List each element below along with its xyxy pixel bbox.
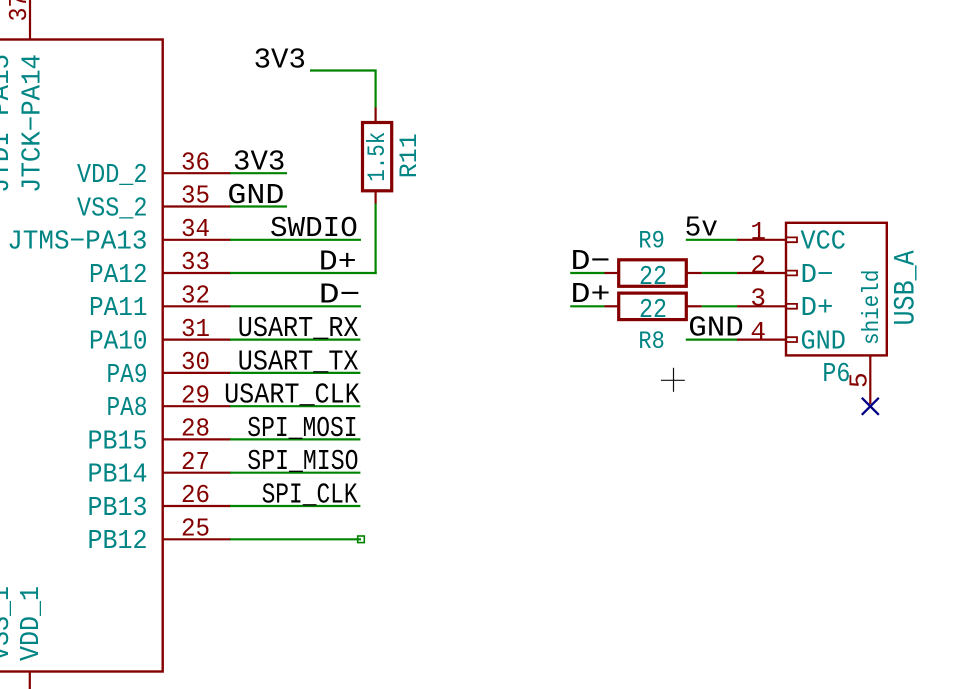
- svg-text:R8: R8: [638, 327, 664, 356]
- bottom pin of IC: [29, 672, 31, 689]
- svg-text:PB14: PB14: [88, 461, 148, 491]
- pin 37 (top edge): [4, 0, 34, 40]
- USB pin 5 shield: [845, 270, 885, 404]
- wire D- to R9: [570, 272, 604, 274]
- svg-text:26: 26: [181, 480, 210, 510]
- svg-text:PA11: PA11: [89, 294, 148, 324]
- no-connect X on pin 5: [862, 398, 879, 415]
- USB pin 4 GND: [737, 317, 846, 357]
- wire D+ to R8: [570, 305, 604, 307]
- svg-text:27: 27: [181, 447, 210, 477]
- svg-text:USART_TX: USART_TX: [238, 345, 359, 378]
- svg-text:D−: D−: [319, 279, 361, 312]
- svg-text:2: 2: [750, 250, 766, 280]
- svg-text:37: 37: [4, 0, 34, 22]
- wire net D− pin32: [230, 305, 361, 307]
- svg-text:SPI_CLK: SPI_CLK: [262, 478, 358, 511]
- svg-text:31: 31: [181, 314, 210, 344]
- wire net D+ pin33: [230, 272, 377, 274]
- resistor R8: [605, 293, 702, 326]
- resistor R9: [605, 260, 702, 293]
- pin 25 PB12: [88, 514, 232, 558]
- pin 27 PB14: [88, 447, 232, 491]
- svg-text:3V3: 3V3: [233, 146, 285, 179]
- svg-text:VSS_2: VSS_2: [77, 194, 148, 224]
- wire 3V3 to R11: [310, 71, 376, 108]
- wire net 3V3 pin36: [230, 172, 287, 174]
- svg-text:JTMS−PA13: JTMS−PA13: [7, 228, 147, 258]
- svg-text:28: 28: [181, 414, 210, 444]
- unconnected wire-end square pin25: [358, 536, 365, 543]
- svg-text:1.5k: 1.5k: [363, 132, 392, 182]
- wire R11 to D+ row: [375, 204, 377, 275]
- svg-text:R11: R11: [395, 133, 424, 178]
- svg-text:36: 36: [181, 147, 210, 177]
- cursor crosshair: [661, 368, 685, 392]
- svg-text:D−: D−: [801, 261, 834, 291]
- pin 30 PA9: [107, 347, 232, 391]
- svg-text:USART_CLK: USART_CLK: [224, 379, 360, 412]
- svg-text:SPI_MOSI: SPI_MOSI: [247, 412, 357, 445]
- wire net USART_RX pin31: [230, 339, 360, 341]
- svg-text:P6: P6: [822, 360, 850, 390]
- wire net GND pin35: [230, 205, 287, 207]
- pin 33 PA12: [89, 247, 231, 291]
- svg-text:VCC: VCC: [801, 228, 846, 258]
- svg-text:PB12: PB12: [88, 527, 148, 557]
- svg-text:PB13: PB13: [88, 494, 148, 524]
- svg-text:R9: R9: [638, 227, 664, 256]
- svg-text:34: 34: [181, 214, 210, 244]
- svg-text:PA12: PA12: [89, 261, 148, 291]
- svg-text:PB15: PB15: [88, 427, 148, 457]
- svg-text:USB_A: USB_A: [890, 250, 924, 325]
- pin 36 VDD_2: [77, 147, 231, 191]
- wire R9 to USB pin2: [702, 272, 737, 274]
- svg-text:D+: D+: [319, 245, 357, 278]
- svg-text:33: 33: [181, 247, 210, 277]
- svg-text:35: 35: [181, 181, 210, 211]
- svg-text:JTDI−PA15: JTDI−PA15: [0, 54, 17, 193]
- svg-text:4: 4: [750, 317, 766, 347]
- svg-text:D+: D+: [801, 294, 834, 324]
- svg-text:22: 22: [639, 296, 667, 326]
- svg-text:USART_RX: USART_RX: [238, 312, 359, 345]
- svg-text:3: 3: [750, 284, 766, 314]
- pin 34 JTMS−PA13: [7, 214, 231, 258]
- pin 35 VSS_2: [77, 181, 231, 225]
- svg-text:PA8: PA8: [107, 394, 148, 424]
- wire net SPI_CLK pin26: [230, 505, 360, 507]
- wire GND to USB pin4: [686, 339, 737, 341]
- USB_A connector P6 body: [786, 223, 887, 356]
- svg-text:shield: shield: [859, 270, 885, 345]
- wire R8 to USB pin3: [702, 305, 737, 307]
- pin 29 PA8: [107, 380, 232, 424]
- pin 32 PA11: [89, 281, 231, 325]
- wire net SPI_MOSI pin28: [230, 438, 360, 440]
- svg-text:22: 22: [639, 263, 667, 293]
- svg-text:SWDIO: SWDIO: [270, 212, 358, 245]
- svg-text:JTCK−PA14: JTCK−PA14: [19, 54, 49, 193]
- svg-text:SPI_MISO: SPI_MISO: [247, 445, 358, 478]
- wire net USART_TX pin30: [230, 372, 360, 374]
- USB pin 2 D−: [737, 250, 834, 290]
- pin 31 PA10: [89, 314, 231, 358]
- pin 26 PB13: [88, 480, 232, 524]
- USB pin 3 D+: [737, 284, 834, 324]
- svg-text:25: 25: [181, 514, 210, 544]
- pin 28 PB15: [88, 414, 232, 458]
- svg-text:PA10: PA10: [89, 328, 148, 358]
- svg-text:PA9: PA9: [107, 361, 148, 391]
- svg-text:GND: GND: [227, 179, 284, 212]
- svg-text:VDD_2: VDD_2: [77, 161, 148, 191]
- wire net SWDIO pin34: [230, 239, 361, 241]
- IC U? body: [0, 40, 163, 672]
- wire net SPI_MISO pin27: [230, 472, 360, 474]
- wire pin25 dangling: [230, 538, 361, 540]
- svg-text:GND: GND: [801, 327, 846, 357]
- USB pin 1 VCC: [737, 217, 846, 257]
- svg-text:VSS_1: VSS_1: [0, 586, 17, 661]
- wire net USART_CLK pin29: [230, 405, 360, 407]
- svg-text:3V3: 3V3: [254, 44, 306, 77]
- svg-text:VDD_1: VDD_1: [17, 586, 47, 661]
- svg-text:32: 32: [181, 281, 210, 311]
- svg-text:1: 1: [750, 217, 766, 247]
- svg-text:29: 29: [181, 380, 210, 410]
- wire 5v to USB pin1: [686, 239, 737, 241]
- resistor R11: [363, 108, 393, 204]
- svg-text:30: 30: [181, 347, 210, 377]
